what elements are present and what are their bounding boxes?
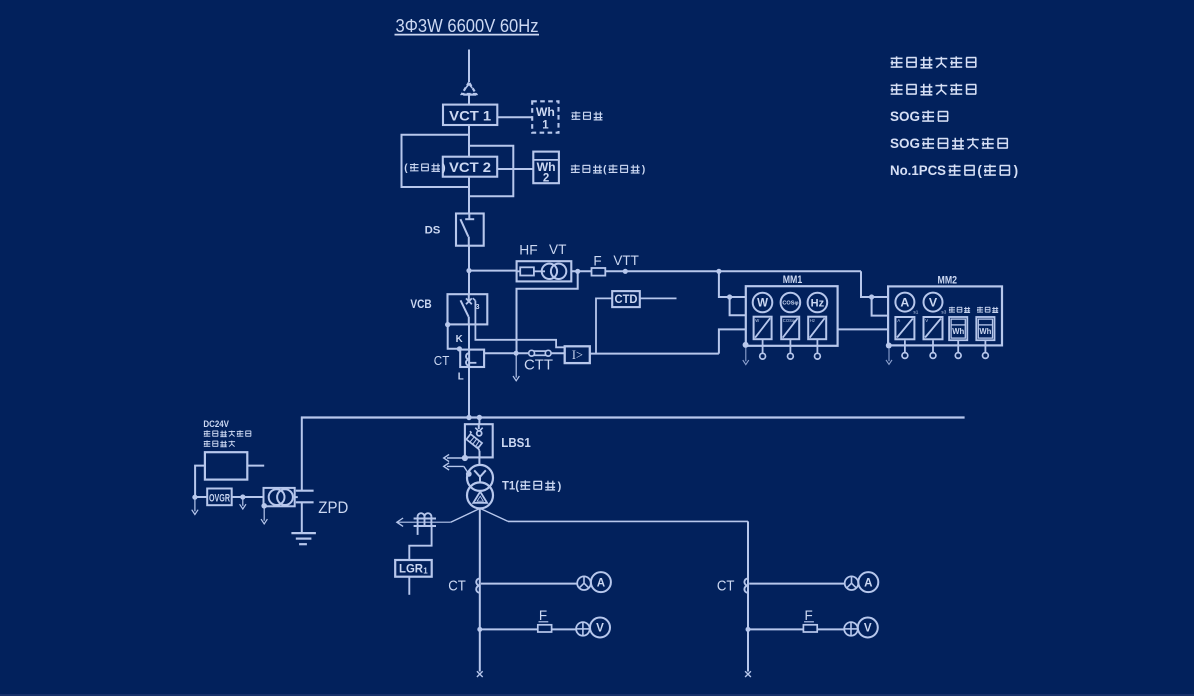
label VT (549, 242, 567, 257)
wire LBS1 interlock arrow 2 (444, 463, 469, 474)
node MM1 voltage tap (716, 269, 721, 274)
wire LBS1 to T1 (478, 457, 480, 465)
label LBS1 (501, 435, 531, 450)
label CT feeder2 (717, 579, 735, 595)
wire CTT ground stub (513, 353, 519, 381)
load break switch LBS1 (465, 423, 493, 457)
svg-text:DC24V: DC24V (203, 419, 229, 429)
svg-text:CT: CT (717, 579, 735, 595)
transformer VCT1 (443, 105, 497, 125)
wire MM1 current feed (719, 329, 746, 353)
wire ZCT to LGR1 (409, 526, 431, 560)
wire VCB trip to relay (475, 324, 564, 347)
voltmeter V2 (858, 618, 878, 638)
wire to CT branch 2 (508, 521, 748, 671)
label CTT (524, 356, 553, 373)
wire detector to capacitor (295, 496, 298, 498)
svg-text:W: W (757, 298, 768, 310)
svg-text:A: A (597, 576, 606, 589)
wire VCB to CT K terminal (448, 325, 461, 349)
svg-text:Wh: Wh (979, 326, 991, 336)
svg-text:V: V (864, 622, 872, 635)
transformer VCT2 (443, 157, 497, 177)
wire MM1 frame ground arrow (743, 348, 749, 365)
svg-text:F: F (805, 608, 813, 623)
wire detector ground arrow (261, 508, 267, 524)
svg-text:): ) (642, 164, 645, 175)
wire T1 down to CT branch 1 (479, 508, 481, 672)
svg-text:CT: CT (434, 354, 450, 368)
battery unit DC24V box (205, 452, 247, 479)
wire VT output line (571, 270, 861, 272)
svg-text:T1(: T1( (502, 478, 519, 492)
label 買電用 (571, 111, 602, 120)
label No.1PCS停止(接点) (890, 163, 1018, 178)
wire VCT2 to Wh2 (497, 168, 533, 170)
circuit breaker VCB (448, 293, 488, 325)
wire VT secondary drop (517, 271, 578, 353)
node LBS tap (477, 415, 482, 420)
node K terminal (457, 346, 462, 351)
wire incoming service drop (468, 50, 470, 83)
label ZPD (318, 499, 348, 517)
title 3Φ3W 6600V 60Hz (395, 15, 540, 36)
svg-text:A: A (864, 576, 873, 589)
wire earthing lead with arrow (397, 518, 451, 526)
transformer T1 secondary (delta) (467, 482, 493, 508)
svg-text:1: 1 (423, 567, 428, 576)
wire MM1 voltage feed (719, 271, 746, 297)
svg-text:CTT: CTT (524, 356, 553, 373)
current transformer CT (460, 349, 484, 367)
svg-text:VTT: VTT (613, 253, 639, 268)
wire VCT1 to Wh1 (497, 116, 533, 118)
node MM1 dogleg (727, 294, 732, 299)
wire MM2 voltage feed (861, 271, 888, 297)
svg-text:): ) (558, 480, 562, 492)
capacitor ZPD (296, 491, 314, 533)
transformer T1 primary (Y) (467, 465, 493, 491)
label ユニット (204, 440, 235, 446)
voltmeter selector 2 (844, 622, 858, 636)
label バックアップ (204, 430, 251, 436)
svg-text:MM1: MM1 (783, 274, 803, 286)
svg-text:(: ( (603, 164, 607, 175)
label T1(支給品) (502, 478, 562, 492)
node OVGR right (240, 494, 245, 499)
svg-text:Hz: Hz (810, 318, 815, 323)
meter Wh1 (dashed) (532, 101, 558, 132)
svg-text:DS: DS (425, 224, 441, 236)
wire voltmeter line 2 (748, 628, 844, 630)
label F voltmeter 1 (539, 608, 549, 623)
label 補機故障一括 (891, 56, 977, 67)
node main to bus (466, 415, 471, 420)
wire DS to VCB (468, 246, 470, 295)
svg-text:F: F (539, 608, 547, 623)
svg-text:Wh: Wh (952, 326, 964, 336)
ammeter selector 2 (845, 576, 859, 590)
svg-text:1: 1 (542, 120, 549, 132)
disconnector DS (456, 213, 484, 247)
fuse F (VTT) (592, 268, 606, 276)
wire stub arrow (240, 499, 246, 509)
wire VCT1 bypass loop (402, 135, 470, 187)
wire OVGR input (195, 496, 207, 498)
svg-text:3: 3 (476, 304, 480, 311)
node MM2 frame (886, 343, 892, 349)
svg-text:COSφ: COSφ (783, 318, 795, 323)
label MM1 (783, 274, 803, 286)
svg-text:CTD: CTD (615, 292, 638, 306)
wire VCT2 series rectangle (469, 146, 513, 197)
wire ammeter line 1 (481, 583, 577, 585)
node CTT tap (514, 351, 519, 356)
ammeter selector 1 (577, 576, 591, 590)
label HF (519, 243, 537, 258)
label 受電用 (949, 307, 970, 313)
svg-text:A: A (897, 318, 900, 323)
cable head CH (462, 82, 476, 105)
svg-text:LGR: LGR (399, 562, 423, 576)
svg-text:K: K (456, 334, 463, 345)
wire LBS1 interlock arrow 1 (444, 454, 465, 461)
label VTT (613, 253, 639, 268)
fuse F voltmeter 1 (538, 625, 552, 632)
svg-text:L: L (458, 371, 464, 382)
wire CT secondary (CTT line) (484, 352, 565, 354)
node VCB aux (445, 322, 450, 327)
label VCB (410, 297, 432, 311)
label F (593, 254, 601, 269)
svg-text:(: ( (977, 163, 982, 178)
label SOG動作 (890, 109, 948, 124)
label (支給品) for VCT2 (404, 163, 445, 174)
svg-text:I>: I> (572, 348, 583, 362)
node LBS1 interlock (462, 455, 468, 461)
wire voltmeter line 1 (480, 628, 576, 630)
voltmeter selector 1 (576, 622, 590, 636)
wire main VCT1 to DS (468, 125, 470, 214)
node T1 tank (466, 471, 472, 477)
node OVGR left (192, 495, 197, 500)
svg-text:3Φ3W 6600V 60Hz: 3Φ3W 6600V 60Hz (396, 15, 539, 36)
wire T1 right diagonal (480, 508, 508, 521)
node VT output (575, 269, 580, 274)
svg-text:V: V (929, 296, 938, 310)
svg-text:F: F (593, 254, 601, 269)
label K (456, 334, 463, 345)
svg-text:CT: CT (448, 579, 466, 595)
wire bus to LBS1 (478, 418, 480, 425)
terminator x feeder2 (745, 671, 751, 677)
ammeter A2 (858, 572, 878, 592)
ammeter A1 (591, 572, 611, 592)
wire OVGR to ZPD detector (232, 496, 264, 498)
wire bus to ZPD (301, 417, 303, 491)
wire CTD output (640, 297, 677, 299)
node VTT (623, 269, 628, 274)
transducer CTD (612, 291, 640, 307)
svg-text:HF: HF (519, 243, 537, 258)
svg-text:W: W (755, 318, 759, 323)
wire main VCB to bus (468, 324, 470, 417)
label MM2 (938, 274, 958, 286)
zero-phase CT ZCT (414, 513, 436, 535)
bottom border strip (0, 694, 1194, 696)
svg-text:): ) (442, 163, 445, 174)
wire tap to HF (469, 270, 517, 272)
node detector frame (261, 503, 267, 509)
relay LGR1 (395, 560, 432, 577)
ground ZPD (291, 533, 316, 544)
label F voltmeter 2 (804, 608, 814, 623)
svg-text:s1: s1 (913, 309, 918, 314)
svg-text:2: 2 (543, 172, 549, 184)
svg-text:SOG: SOG (890, 109, 920, 124)
wire MM1 to MM2 current link (838, 328, 889, 330)
label CT feeder1 (448, 579, 466, 595)
label 補機低圧地絡 (891, 83, 977, 94)
svg-text:VT: VT (549, 242, 567, 257)
svg-text:COSφ: COSφ (782, 301, 798, 307)
test terminal CTT (529, 350, 551, 356)
terminator x feeder1 (477, 671, 483, 677)
label DS (425, 224, 441, 236)
svg-text:s3: s3 (941, 309, 946, 314)
svg-text:No.1PCS: No.1PCS (890, 163, 946, 178)
relay OVGR (207, 489, 232, 506)
svg-text:LBS1: LBS1 (501, 435, 531, 450)
label SOG自己診断異常 (890, 136, 1008, 151)
wire relay output (590, 353, 719, 355)
label DC24V (203, 419, 229, 429)
wire CTD drop (596, 298, 612, 353)
wire MM2 voltage dogleg (872, 297, 889, 316)
label CT (434, 354, 450, 368)
wire T1 left diagonal (451, 508, 480, 522)
svg-text:MM2: MM2 (938, 274, 958, 286)
label 売電用(支給品) (571, 164, 645, 175)
svg-text:V: V (596, 622, 604, 635)
voltage transformer VT with fuse HF (517, 261, 572, 281)
svg-text:(: ( (404, 163, 408, 174)
wire MM1 voltage dogleg (730, 297, 746, 315)
svg-text:Wh: Wh (536, 107, 555, 119)
node voltmeter tap 2 (746, 627, 751, 632)
wire MM2 frame ground arrow (886, 348, 892, 364)
svg-text:VCT 2: VCT 2 (449, 160, 491, 176)
meter unit MM1 (746, 286, 838, 359)
node voltmeter tap 1 (477, 627, 482, 632)
meter unit MM2 (888, 286, 1002, 358)
wire unit stub right (247, 465, 264, 467)
current transformer CT feeder1 (476, 578, 480, 592)
svg-text:V: V (925, 318, 928, 323)
label L (458, 371, 464, 382)
detector ZPD coils (264, 488, 295, 506)
relay I> (565, 346, 590, 363)
svg-text:VCB: VCB (410, 297, 432, 311)
svg-text:Hz: Hz (811, 297, 825, 309)
wire OVGR left ground arrow (192, 499, 198, 515)
current transformer CT feeder2 (744, 578, 748, 592)
fuse F voltmeter 2 (803, 625, 817, 632)
svg-text:ZPD: ZPD (318, 499, 348, 517)
node MM2 dogleg (869, 294, 874, 299)
svg-text:): ) (1014, 163, 1019, 178)
node MM1 frame (743, 342, 749, 348)
svg-text:A: A (900, 296, 909, 310)
svg-text:VCT 1: VCT 1 (449, 108, 491, 124)
wire LGR1 output (408, 577, 410, 595)
svg-text:OVGR: OVGR (209, 492, 230, 504)
meter Wh2 (533, 152, 559, 185)
svg-text:SOG: SOG (890, 136, 920, 151)
wire ammeter line 2 (749, 583, 845, 585)
node voltage tap (466, 268, 471, 273)
wire unit to OVGR (195, 466, 205, 497)
label 送電用 (977, 307, 998, 313)
voltmeter V1 (590, 618, 610, 638)
wire LV bus (301, 416, 965, 418)
